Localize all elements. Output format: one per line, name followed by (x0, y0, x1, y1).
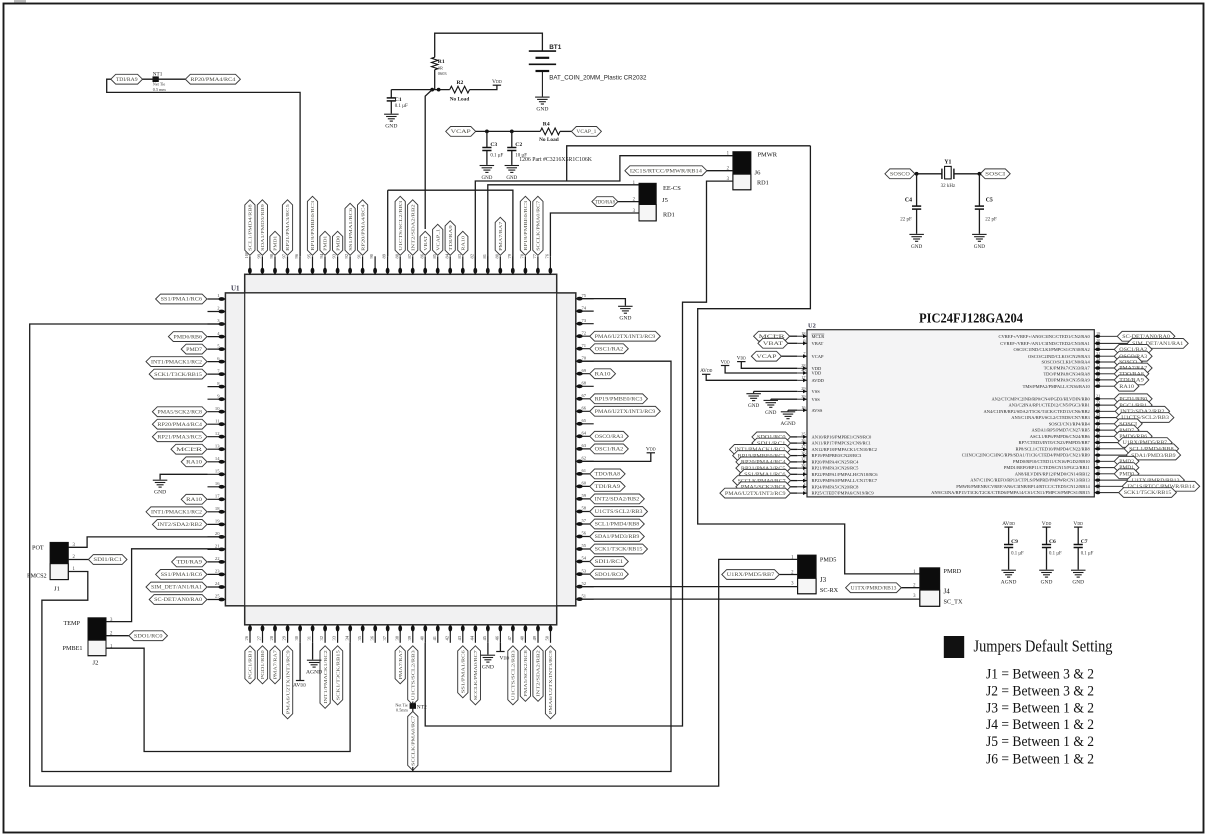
svg-text:14: 14 (215, 456, 220, 461)
power VDD (pin 46) (496, 651, 504, 653)
U2 pin 5 (RC9) (797, 488, 874, 496)
svg-text:31: 31 (1096, 351, 1100, 356)
U1 pin 29 (282, 625, 290, 643)
net tag PMA7/RA7 (495, 217, 505, 255)
svg-text:43: 43 (1096, 437, 1100, 442)
svg-text:PMD5: PMD5 (820, 556, 837, 563)
net tag SDI1/RC1 (590, 557, 629, 567)
svg-text:J4 = Between 1 & 2: J4 = Between 1 & 2 (986, 717, 1094, 733)
capacitor C1 plates (387, 98, 396, 101)
net tag PMA6/U2TX/INT3/RC9 (545, 646, 555, 719)
svg-text:TEMP: TEMP (64, 620, 81, 627)
svg-text:AVDD: AVDD (700, 368, 712, 374)
U2 pin 10 (RB12) (1015, 469, 1115, 477)
svg-text:RP21/PMA3/RC5: RP21/PMA3/RC5 (157, 435, 202, 440)
svg-text:J5: J5 (662, 197, 669, 204)
svg-text:VDD: VDD (1073, 521, 1083, 527)
U1 pin 48 (520, 625, 528, 643)
svg-text:INT2/SDA2/RB2: INT2/SDA2/RB2 (536, 649, 541, 696)
wire tag to U2 RC pin (791, 480, 798, 482)
net tag VBAT (420, 231, 430, 255)
svg-text:Jumpers Default Setting: Jumpers Default Setting (974, 637, 1113, 656)
net tag RA10 (458, 231, 468, 255)
svg-text:26: 26 (801, 438, 806, 443)
svg-text:J1: J1 (54, 586, 60, 593)
svg-text:PMD1: PMD1 (273, 235, 278, 251)
svg-text:RP20/PMA4/RC4: RP20/PMA4/RC4 (190, 78, 236, 83)
U1 pin 15 (208, 469, 226, 477)
U1 pin 38 (394, 625, 402, 643)
svg-text:U1CTS/SCL2/RB3: U1CTS/SCL2/RB3 (398, 200, 403, 251)
svg-text:PMA7/RA7: PMA7/RA7 (498, 221, 503, 251)
net tag PMA7/RA7 (395, 646, 405, 684)
svg-text:SCCLK/PMA0/RC7: SCCLK/PMA0/RC7 (473, 649, 478, 700)
net tag RP19/PMBE0/RC3 (733, 451, 791, 461)
svg-text:VDD: VDD (646, 447, 656, 453)
net tag SCK1/T5CK/RB15 (1119, 488, 1177, 498)
U2 pin 14 (RB14) (956, 481, 1122, 489)
svg-text:PMA6/U2TX/INT3/RC9: PMA6/U2TX/INT3/RC9 (548, 649, 553, 714)
U1 pin 3 (208, 318, 226, 326)
svg-text:RA10: RA10 (595, 372, 612, 377)
svg-text:PMA5/SCK2/RC8: PMA5/SCK2/RC8 (157, 410, 202, 415)
svg-text:VCAP: VCAP (451, 130, 472, 135)
capacitor C3 plates (482, 148, 491, 151)
wire U1 pin 79 / pin 89 link (388, 190, 513, 274)
svg-text:1: 1 (1096, 450, 1098, 455)
svg-text:73: 73 (582, 318, 587, 323)
ground GND (618, 306, 633, 313)
U2 pin 19 (RA0) (998, 331, 1117, 339)
wire U1 pin 21 to J2.3 (106, 549, 225, 622)
jumper J5 (639, 183, 656, 221)
svg-text:PGD1/RB0: PGD1/RB0 (260, 649, 265, 679)
svg-text:PMWR: PMWR (758, 152, 778, 159)
U1 pin 85 (432, 253, 440, 274)
net tag SDO1/RC0 (590, 569, 629, 579)
U1 pin 97 (282, 253, 290, 274)
svg-text:AVDD: AVDD (812, 378, 825, 383)
wire J2.1 to U1 pin 34 (106, 643, 350, 752)
U2 pin 6 (VBAT) (797, 338, 823, 346)
svg-text:OSCO/RA3: OSCO/RA3 (595, 435, 624, 440)
net tie NT1 (143, 71, 186, 82)
svg-text:PMA6/U2TX/INT3/RC9: PMA6/U2TX/INT3/RC9 (725, 492, 786, 497)
svg-text:SDO1/RC0: SDO1/RC0 (595, 573, 624, 578)
svg-text:68: 68 (582, 381, 587, 386)
svg-text:U1CTS/SCL2/RB3: U1CTS/SCL2/RB3 (411, 649, 416, 700)
svg-text:53: 53 (582, 568, 587, 573)
svg-text:PMD1: PMD1 (323, 235, 328, 251)
svg-text:9: 9 (1096, 462, 1098, 467)
U1 pin 17 (208, 494, 226, 502)
U2 pin 32 (RA8) (1043, 369, 1114, 377)
svg-text:SS1/PMA1/RC6: SS1/PMA1/RC6 (348, 207, 353, 251)
svg-text:VDD: VDD (1042, 521, 1052, 527)
svg-text:VSS: VSS (812, 389, 821, 394)
svg-text:82: 82 (469, 253, 474, 258)
svg-text:OSCO/C2IND/CLKO/CN29/RA3: OSCO/C2IND/CLKO/CN29/RA3 (1028, 354, 1091, 359)
svg-text:3: 3 (791, 582, 794, 587)
wire SOSCO to Y1 (915, 173, 942, 175)
net tag TDI/RA9 (1114, 375, 1149, 385)
svg-text:35: 35 (1096, 375, 1100, 380)
U2 pin 23 (RB2) (984, 406, 1116, 414)
svg-text:SCK1/T5CK/RB15: SCK1/T5CK/RB15 (1124, 491, 1172, 496)
ground GND (384, 114, 399, 121)
svg-text:SCK1/T3CK/RB15: SCK1/T3CK/RB15 (335, 649, 340, 700)
wire GND stem (753, 391, 755, 393)
net tag SDO1/RC0 (752, 432, 791, 442)
svg-text:7: 7 (803, 351, 806, 356)
svg-text:U1TX/PMRD/RB13: U1TX/PMRD/RB13 (851, 586, 897, 591)
svg-text:10: 10 (215, 406, 220, 411)
svg-text:3: 3 (913, 594, 916, 599)
svg-text:U1RX/PMD5/RB7: U1RX/PMD5/RB7 (727, 573, 775, 578)
power VDD (647, 452, 655, 454)
svg-text:TDO/PMPA8/CN34/RA8: TDO/PMPA8/CN34/RA8 (1043, 371, 1090, 376)
wire Y1 to SOSCI (954, 173, 980, 175)
U1 pin 43 (457, 625, 465, 643)
svg-text:RP19/PMBE0/RC3: RP19/PMBE0/RC3 (523, 200, 528, 251)
U1 pin 87 (407, 253, 415, 274)
svg-text:17: 17 (801, 375, 806, 380)
svg-text:INT2/SDA2/RB2: INT2/SDA2/RB2 (157, 523, 202, 528)
U2 pin 8 (RB10) (1013, 456, 1114, 464)
svg-text:4: 4 (217, 331, 220, 336)
U2 pin 18 (MCLR) (797, 331, 824, 339)
svg-text:AN2/CTCMP/C2INB/RP0/CN4/PGD3/H: AN2/CTCMP/C2INB/RP0/CN4/PGD3/HLVDIN/RB0 (991, 396, 1090, 401)
junction R1/VBAT (437, 88, 441, 92)
svg-text:25: 25 (801, 432, 805, 437)
U2 pin 7 (VCAP) (797, 351, 824, 359)
net tag RA10 (590, 369, 616, 379)
net tag PGD1/RB0 (257, 646, 267, 684)
net tag PMD6/RB6 (168, 332, 207, 342)
wire C2 bottom (511, 151, 513, 165)
net tag PMD0 (1114, 469, 1139, 479)
net tag SOSCI (1114, 419, 1142, 429)
svg-text:AN10/RP16/PMPBE1/CN8/RC0: AN10/RP16/PMPBE1/CN8/RC0 (812, 435, 873, 440)
svg-text:RP21/PMPA3/CN26/RC5: RP21/PMPA3/CN26/RC5 (812, 466, 860, 471)
net tag SC-DET/AN0/RA0 (149, 595, 207, 605)
svg-text:C7: C7 (1081, 539, 1088, 545)
wire C5 top (978, 174, 980, 206)
svg-text:I2C1S/RTCC/PMWR/RB14: I2C1S/RTCC/PMWR/RB14 (630, 169, 703, 174)
power VDD (1074, 526, 1082, 528)
svg-text:11: 11 (1096, 475, 1100, 480)
svg-text:C9: C9 (1011, 539, 1018, 545)
svg-text:RA10: RA10 (461, 235, 466, 251)
svg-text:64: 64 (582, 431, 587, 436)
svg-text:0603: 0603 (438, 71, 448, 76)
U2 pin 34 (RA4) (1042, 357, 1115, 365)
svg-text:SCCLK/PMA0/RC7: SCCLK/PMA0/RC7 (536, 200, 541, 251)
net tag PMA6/U2TX/INT3/RC9 (590, 406, 661, 416)
svg-text:PMRD: PMRD (944, 568, 962, 575)
svg-text:32: 32 (1096, 369, 1100, 374)
svg-text:GND: GND (911, 244, 922, 250)
svg-text:36: 36 (369, 635, 374, 640)
svg-text:16: 16 (801, 405, 806, 410)
svg-text:SCCLK/PMA0/RC7: SCCLK/PMA0/RC7 (411, 715, 416, 766)
wire J3.2 to tag (779, 574, 797, 576)
svg-text:J2 = Between 3 & 2: J2 = Between 3 & 2 (986, 684, 1094, 700)
wire VDD to U2 pin 28 (741, 362, 797, 369)
svg-text:65: 65 (582, 418, 587, 423)
svg-text:10: 10 (1096, 469, 1100, 474)
net tag VBAT (U2) (758, 338, 788, 348)
U2 pin 26 (RC1) (797, 438, 871, 446)
resistor R1 body (432, 57, 438, 69)
U2 pin 20 (RA1) (1000, 338, 1127, 346)
wire U2 AVSS to AGND (788, 409, 797, 411)
net tag SDI1/RC1 (752, 438, 791, 448)
U2 pin 39 (VSS) (797, 394, 820, 402)
svg-text:ASCL1/RP6/PMPD6/CN24/RB6: ASCL1/RP6/PMPD6/CN24/RB6 (1030, 434, 1091, 439)
svg-text:26: 26 (244, 635, 249, 640)
ground GND (480, 166, 495, 173)
svg-text:13: 13 (215, 443, 220, 448)
svg-text:66: 66 (582, 406, 587, 411)
net tag U1CTS/SCL2/RB3 (508, 646, 518, 705)
svg-text:35: 35 (357, 635, 362, 640)
net tag SCCLK/PMA0/RC7 (470, 646, 480, 705)
svg-text:SCL1/PMD4/RB8: SCL1/PMD4/RB8 (248, 203, 253, 250)
resistor R4 body (540, 128, 560, 135)
svg-text:AN9/C3INA/RP15/T3CK/T2CK/CTED6: AN9/C3INA/RP15/T3CK/T2CK/CTED6/PMPA14/CS… (931, 490, 1090, 495)
net tag SOSCO (885, 169, 915, 179)
svg-text:55: 55 (582, 543, 587, 548)
net tag SDO1/RC0 (J2) (129, 631, 168, 641)
svg-text:17: 17 (215, 494, 220, 499)
svg-text:R4: R4 (543, 121, 550, 127)
svg-text:41: 41 (1096, 425, 1100, 430)
jumper J2 (88, 618, 106, 656)
net tag PGC1/RB1 (245, 646, 255, 684)
wire MCLR tag to U2 (788, 335, 797, 337)
U2 pin 25 (RC0) (797, 432, 872, 440)
net tag RP19/PMBE0/RC3 (590, 394, 648, 404)
svg-text:PMA6/U2TX/INT3/RC9: PMA6/U2TX/INT3/RC9 (595, 410, 656, 415)
svg-text:27: 27 (257, 635, 262, 640)
svg-text:C2: C2 (515, 142, 522, 148)
net tag INT2/SDA2/RB2 (1115, 406, 1169, 416)
wire VDD to U2 pin 40 (725, 366, 797, 373)
net tag TDI/RA9 (NT1 left) (111, 74, 143, 84)
U2 pin 1 (RB9) (962, 450, 1126, 458)
svg-text:41: 41 (432, 635, 437, 640)
wire VBAT tag to U2 (788, 342, 797, 344)
svg-text:SCL1/PMD4/RB8: SCL1/PMD4/RB8 (595, 523, 640, 528)
U1 pin 13 (208, 443, 226, 451)
U1 pin 30 (294, 625, 302, 643)
U1 pin 45 (482, 625, 490, 643)
U1 pin 57 (576, 518, 594, 526)
wire pin75 to GND (576, 299, 626, 306)
jumper J3 (798, 555, 817, 594)
U1 pin 56 (576, 531, 594, 539)
svg-text:62: 62 (582, 456, 587, 461)
svg-text:VDD: VDD (812, 371, 822, 376)
U1 pin 26 (244, 625, 252, 643)
U2 pin 37 (RC4) (797, 457, 859, 465)
junction C4 (915, 172, 919, 176)
svg-text:39: 39 (407, 635, 412, 640)
U2 pin 13 (RA7) (1044, 363, 1115, 371)
net tag PMD7 (181, 344, 207, 354)
svg-text:90: 90 (369, 253, 374, 258)
svg-text:2: 2 (803, 469, 805, 474)
net tag PMD1 (320, 231, 330, 255)
U2 pin 28 (VDD) (797, 363, 822, 371)
U1 pin 18 (208, 506, 226, 514)
U1 pin 59 (576, 493, 594, 501)
U2 pin 17 (AVDD) (797, 375, 824, 383)
svg-text:16: 16 (215, 481, 220, 486)
svg-text:SS1/PMA1/RC6: SS1/PMA1/RC6 (161, 298, 203, 303)
svg-text:42: 42 (1096, 431, 1100, 436)
battery BT1 (529, 51, 556, 96)
svg-text:18: 18 (801, 331, 805, 336)
svg-text:32: 32 (319, 635, 324, 640)
net tag OSC1/RA2 (1114, 345, 1152, 355)
net tag RP21/PMA3/RC5 (282, 200, 292, 256)
U1 pin 94 (319, 253, 327, 274)
power AVDD (pin 30) (296, 680, 304, 682)
svg-text:45: 45 (482, 635, 487, 640)
svg-text:36: 36 (801, 450, 806, 455)
U1 pin 8 (208, 381, 226, 389)
ground GND (764, 400, 779, 407)
wire R4 to VCAP_1 (560, 130, 571, 132)
net tag RP21/PMA3/RC5 (736, 463, 791, 473)
wire AGND stem (787, 410, 789, 411)
net tag SS1/PMA1/RC6 (458, 646, 468, 698)
net tag MCLR (U2) (754, 331, 790, 341)
net tag SS1/PMA1/RC6 (156, 570, 207, 580)
svg-text:23: 23 (1096, 406, 1100, 411)
svg-text:56: 56 (582, 531, 587, 536)
svg-text:SDI1/RC1: SDI1/RC1 (595, 560, 624, 565)
junction R1/R2 (430, 88, 434, 92)
svg-text:0.1 µF: 0.1 µF (1011, 552, 1024, 557)
svg-text:VDD: VDD (492, 79, 502, 85)
svg-text:34: 34 (344, 635, 349, 640)
wire pin31 to AGND (312, 643, 314, 660)
svg-text:RP20/PMA4/RC4: RP20/PMA4/RC4 (157, 423, 202, 428)
wire C7 top (1077, 527, 1079, 544)
ground GND (1039, 570, 1054, 577)
power VDD (737, 361, 745, 363)
svg-text:C6: C6 (1049, 539, 1056, 545)
U2 pin 43 (RB7) (1019, 437, 1118, 445)
svg-text:70: 70 (582, 355, 587, 360)
net tag U1TX/PMRD/RB13 (J4) (846, 583, 902, 593)
svg-text:VDD: VDD (721, 359, 730, 365)
svg-text:BT1: BT1 (549, 44, 562, 51)
ground GND (481, 655, 496, 662)
svg-text:2: 2 (217, 306, 220, 311)
net tag SC-DET/AN0/RA0 (1117, 331, 1175, 341)
svg-text:MCLR: MCLR (176, 448, 204, 453)
U1 pin 7 (208, 368, 226, 376)
svg-text:21: 21 (1096, 394, 1100, 399)
U1 pin 27 (257, 625, 265, 643)
svg-text:22 pF: 22 pF (900, 217, 912, 222)
U1 pin 96 (294, 253, 302, 274)
wire R1 bottom (434, 70, 436, 90)
U1 pin 98 (269, 253, 277, 274)
svg-text:46: 46 (495, 635, 500, 640)
net tag SCCLK/PMA0/RC7 (NT2) (408, 711, 418, 770)
net tag OSCO/RA3 (590, 431, 629, 441)
wire VCAP node (476, 130, 541, 132)
net tag SCK1/T3CK/RB15 (333, 646, 343, 705)
U1 pin 79 (507, 253, 515, 274)
U1 pin 74 (576, 305, 594, 313)
svg-text:47: 47 (507, 635, 512, 640)
U1 pin 25 (208, 594, 226, 602)
U1 pin 95 (307, 253, 315, 274)
svg-text:RA10: RA10 (1119, 385, 1134, 390)
U1 pin 14 (208, 456, 226, 464)
svg-text:AGND: AGND (306, 670, 322, 676)
svg-text:18: 18 (215, 506, 220, 511)
wire tag to U2 RC pin (791, 442, 798, 444)
svg-text:0.1 µF: 0.1 µF (1049, 552, 1062, 557)
U1 pin 51 (576, 593, 594, 601)
svg-text:SOSCO/SCLKI/CN0/RA4: SOSCO/SCLKI/CN0/RA4 (1042, 360, 1091, 365)
net tag U1CTS/SCL2/RB3 (408, 646, 418, 705)
svg-text:AN5/C1INA/RP3/SCL2/CTED8/CN7/R: AN5/C1INA/RP3/SCL2/CTED8/CN7/RB3 (1011, 415, 1090, 420)
svg-text:TDO/RA8: TDO/RA8 (595, 473, 621, 478)
svg-text:14: 14 (1096, 481, 1101, 486)
svg-text:RP8/SCL1/CTED10/PMPD4/CN22/RB8: RP8/SCL1/CTED10/PMPD4/CN22/RB8 (1016, 446, 1091, 451)
svg-text:9: 9 (217, 393, 220, 398)
svg-text:GND: GND (481, 176, 492, 181)
power VDD (721, 365, 729, 367)
U1 pin 44 (470, 625, 478, 643)
svg-text:GND: GND (385, 124, 397, 130)
svg-text:VBAT: VBAT (763, 342, 783, 347)
net tag PMD2 (1114, 456, 1139, 466)
svg-text:15: 15 (215, 469, 220, 474)
svg-text:PIC24FJ128GA204: PIC24FJ128GA204 (919, 311, 1023, 326)
U1 pin 16 (208, 481, 226, 489)
svg-text:SOSCO: SOSCO (890, 173, 911, 178)
svg-text:J6 = Between 1 & 2: J6 = Between 1 & 2 (986, 752, 1094, 768)
svg-text:67: 67 (582, 393, 587, 398)
svg-text:24: 24 (1096, 412, 1101, 417)
power VDD (493, 84, 501, 86)
svg-text:AVDD: AVDD (1002, 521, 1015, 527)
U1 pin 37 (382, 625, 390, 643)
U1 pin 90 (369, 253, 377, 274)
net tag RA10 (181, 494, 207, 504)
wire tag to U2 RC pin (791, 461, 798, 463)
svg-text:RD1: RD1 (663, 211, 675, 218)
svg-text:C5: C5 (986, 197, 993, 203)
net tag INT1/PMACK1/RC2 (730, 445, 791, 455)
wire C1 top (390, 90, 392, 98)
net tag PMA6/U2TX/INT3/RC9 (283, 646, 293, 719)
svg-text:GND: GND (154, 490, 166, 496)
svg-text:SOSCI: SOSCI (985, 173, 1006, 178)
net tag U1TX/PMRD/RB13 (1127, 475, 1185, 485)
ground GND (972, 234, 987, 241)
svg-text:VCAP_1: VCAP_1 (435, 228, 440, 251)
